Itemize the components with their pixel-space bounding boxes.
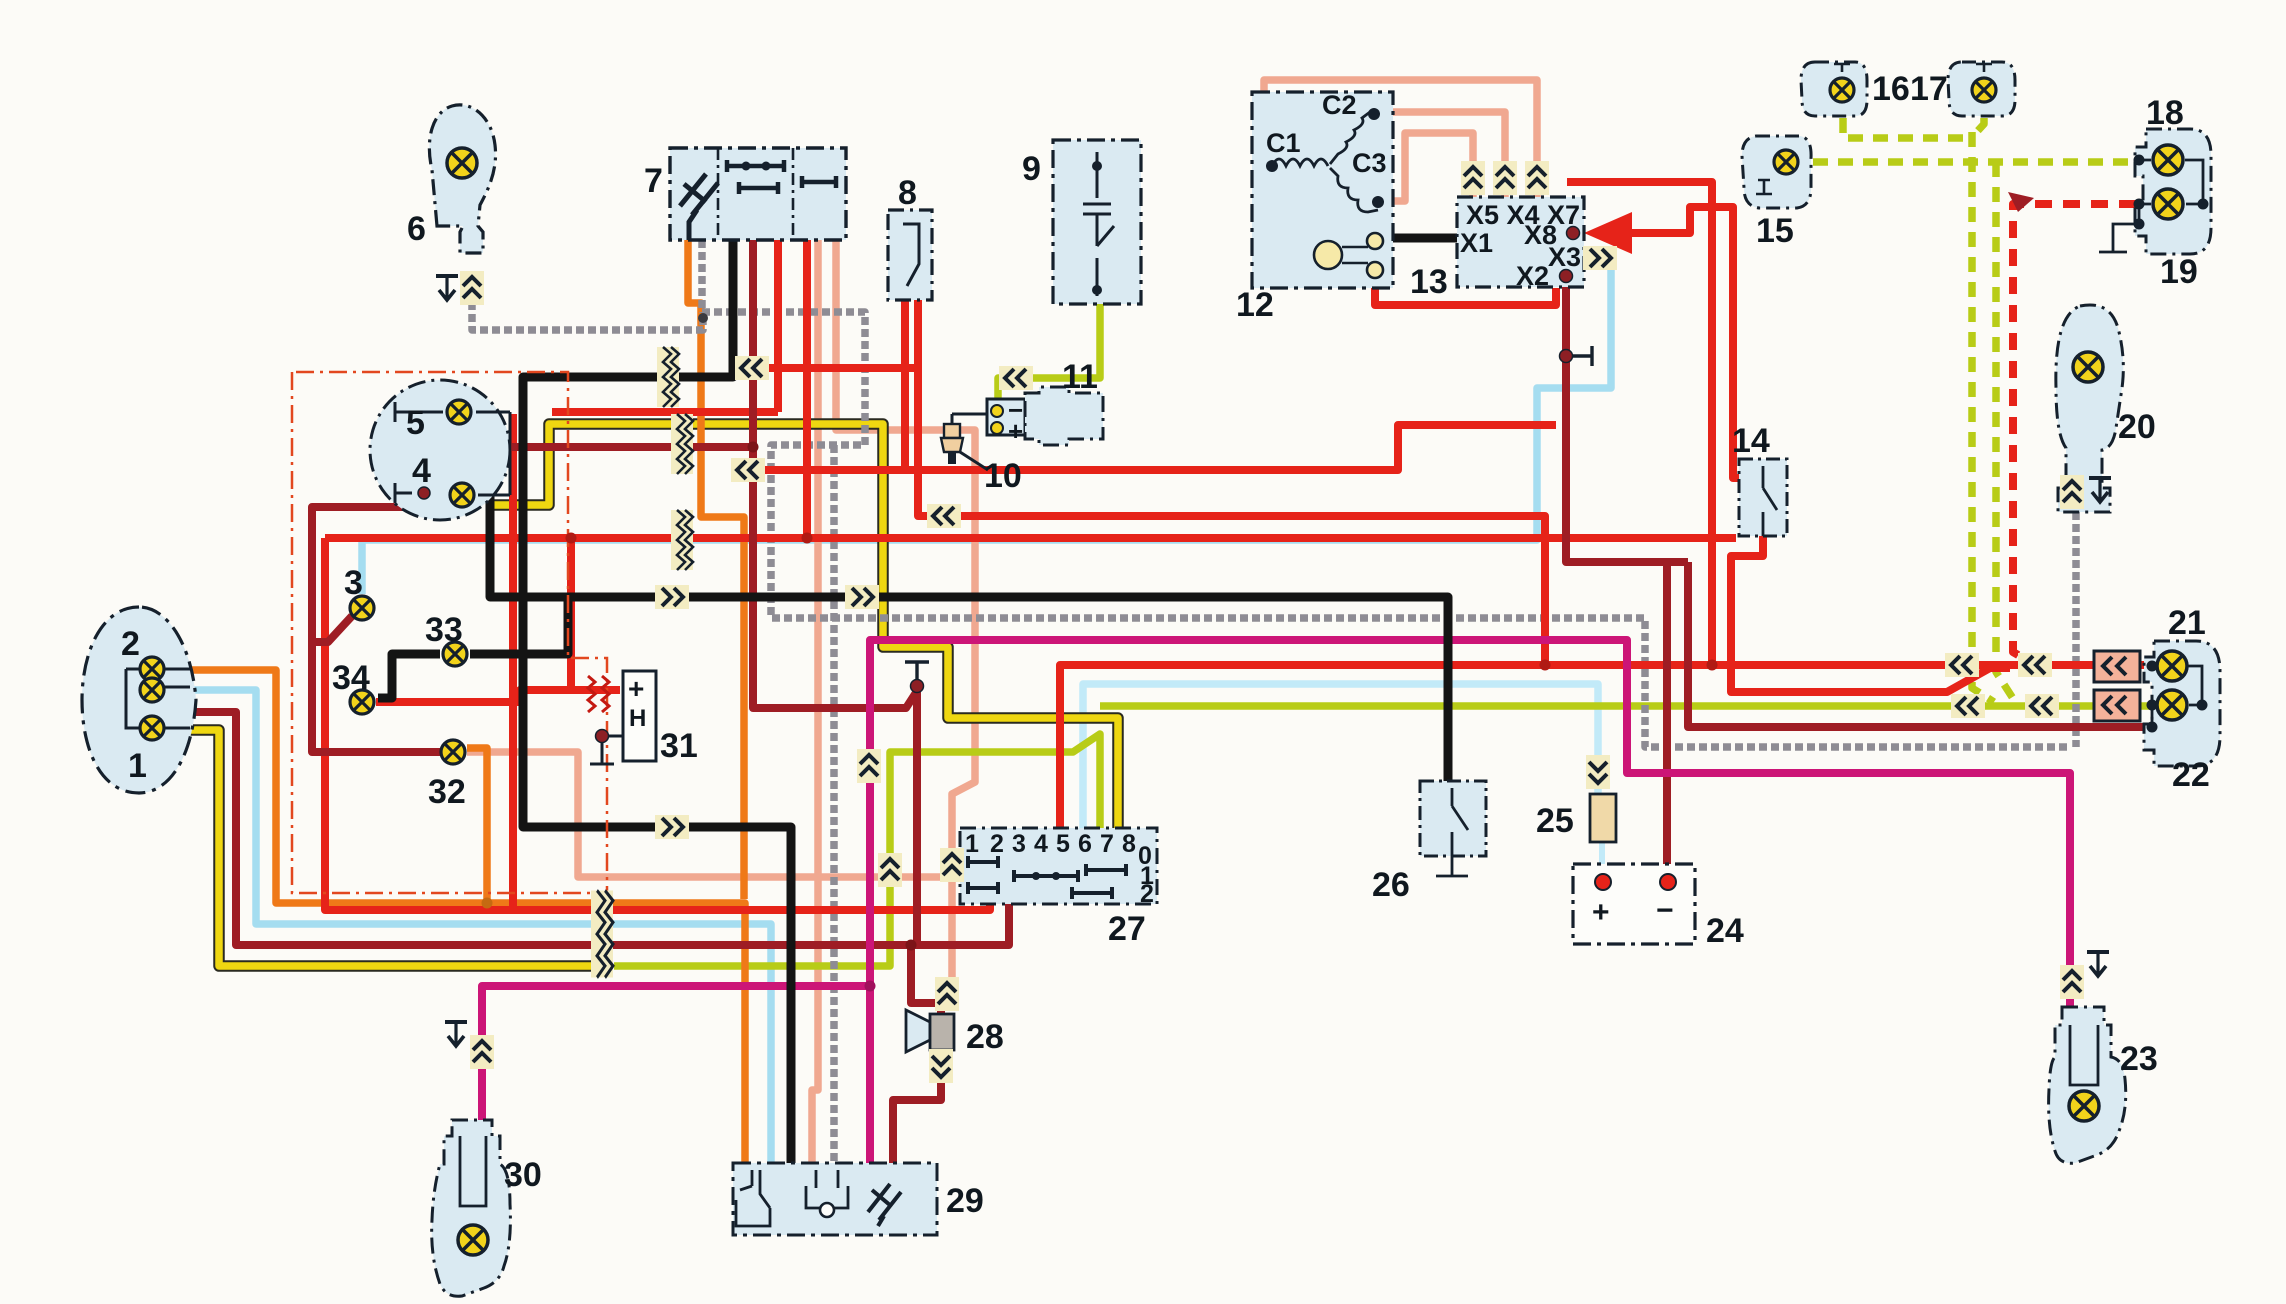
harness boundary thin red dash-dot frame (left cluster) xyxy=(292,372,607,893)
wire red branch up to block7 xyxy=(803,240,811,538)
wire chartreuse dashed lamp17 stem xyxy=(1973,118,1984,136)
svg-text:33: 33 xyxy=(425,611,463,649)
wire red generator to regulator xyxy=(1375,268,1556,305)
svg-text:5: 5 xyxy=(406,404,425,442)
wire fuse to battery plus xyxy=(1599,842,1605,864)
wire maroon to lamp22 housing xyxy=(1688,562,2148,727)
lamp 20 (rear left turn signal) xyxy=(2056,305,2123,512)
wire red riser speedo area down xyxy=(509,414,517,908)
wire chartreuse dashed turn signal 16 xyxy=(1843,118,1972,138)
wire gray lamp6 down xyxy=(472,302,703,330)
wire red lamp34 to relay31 xyxy=(376,690,575,702)
wire black generator X1 xyxy=(1390,234,1457,243)
connector block 27 xyxy=(960,828,1157,904)
svg-text:6: 6 xyxy=(1078,830,1092,858)
svg-text:24: 24 xyxy=(1706,912,1744,950)
connector chevrons below lamp 6 xyxy=(460,271,484,305)
bullet connector blocks at lamp 21 xyxy=(2094,651,2140,682)
headlamp bulb bracket xyxy=(126,669,190,728)
wire pale blue block27 to fuse 25 xyxy=(1083,684,1598,828)
wire maroon X2 to battery minus xyxy=(1566,278,1688,562)
wire gray lamp20 down xyxy=(2072,512,2080,747)
ignition coil 11 xyxy=(987,399,1025,435)
contact dot of 31 with holder xyxy=(590,736,623,764)
wire maroon horn to block29 xyxy=(893,1050,941,1163)
wire salmon block7 to horn xyxy=(836,240,975,988)
svg-text:17: 17 xyxy=(1910,70,1948,108)
junction dots xyxy=(698,313,708,323)
wire maroon battery drop xyxy=(1663,562,1671,864)
wire yellow outline headlight low beam xyxy=(190,730,596,966)
indicator lamp 3 (high beam) xyxy=(350,596,374,620)
winding C2 xyxy=(1330,112,1370,164)
wire maroon bulb4 to lamp32 xyxy=(312,496,440,752)
svg-text:26: 26 xyxy=(1372,866,1410,904)
ignition cut-out switch 9 xyxy=(1053,140,1141,304)
svg-text:C2: C2 xyxy=(1322,90,1357,120)
wire red main feed y538 xyxy=(325,534,1736,542)
spark plug 10 xyxy=(952,414,987,424)
svg-text:X2: X2 xyxy=(1516,261,1549,291)
wire red brake switch8 left xyxy=(762,300,905,470)
connector chevrons on wires xyxy=(731,458,765,482)
high/low beam lamp 2 (double bulb) xyxy=(140,657,164,681)
horn 28 xyxy=(906,1010,930,1052)
wire chartreuse continuation to block27 and tail xyxy=(614,734,1100,966)
battery 24 xyxy=(1573,864,1695,944)
stop switch 14 xyxy=(1739,459,1787,536)
wire black speedo to switch26 xyxy=(474,396,1448,781)
contact dot lamp 4 xyxy=(418,487,430,499)
fuse 25 xyxy=(1590,794,1616,842)
wire yellow outline speedo to block27 xyxy=(492,424,1118,828)
wire chartreuse tail lamp 22 xyxy=(1100,702,2155,710)
lamp 17 xyxy=(1948,62,2015,116)
X2 contact dot xyxy=(1560,270,1573,283)
wire salmon lamp32 branch xyxy=(467,752,952,877)
wire orange block7 branch xyxy=(688,240,744,899)
wire salmon generator phase 1 xyxy=(1264,80,1537,197)
wire chartreuse dashed turn vertical a xyxy=(1972,132,1994,702)
lamp 6 bulb xyxy=(447,148,477,178)
wire maroon headlight to block27 bottom xyxy=(190,712,1009,945)
svg-text:C1: C1 xyxy=(1266,128,1301,158)
svg-text:+: + xyxy=(628,673,644,704)
svg-text:−: − xyxy=(1656,894,1674,927)
wire skyblue headlight to block 29 xyxy=(190,690,771,1163)
wire red dashed brake rear xyxy=(2013,204,2136,665)
lamp 16 xyxy=(1801,62,1867,116)
svg-text:13: 13 xyxy=(1410,263,1448,301)
wire gray branch to block29 xyxy=(830,445,838,1163)
svg-text:22: 22 xyxy=(2172,756,2210,794)
arrow mark on red dashed corner xyxy=(2008,192,2034,212)
svg-text:4: 4 xyxy=(412,452,431,490)
harness crossing bands xyxy=(657,347,679,407)
svg-text:29: 29 xyxy=(946,1182,984,1220)
svg-text:3: 3 xyxy=(344,564,363,602)
svg-text:28: 28 xyxy=(966,1018,1004,1056)
brake light switch 8 xyxy=(888,210,932,300)
cell2 glyph: contact bars xyxy=(727,160,784,194)
cell1 glyph: lamp switch symbol xyxy=(680,174,718,240)
indicator lamp 32 xyxy=(441,740,465,764)
wire salmon generator phase 2 xyxy=(1377,112,1505,197)
svg-text:H: H xyxy=(629,705,646,732)
wire orange headlight parking circuit xyxy=(190,670,745,1163)
wire gray block7 to rear xyxy=(702,240,2070,747)
svg-text:C3: C3 xyxy=(1352,148,1387,178)
wire black lamp33 to lamp34 xyxy=(378,654,440,698)
wire red jumper to coil area xyxy=(748,364,916,372)
svg-text:21: 21 xyxy=(2168,604,2206,642)
wire red X8 to switch14 xyxy=(1596,207,1739,478)
headlamp housing 1/2 (big oval left) xyxy=(82,607,196,793)
svg-text:25: 25 xyxy=(1536,802,1574,840)
svg-text:6: 6 xyxy=(407,210,426,248)
winding C1 xyxy=(1272,159,1328,166)
tail lamp unit 18/19 xyxy=(2135,129,2211,254)
wire red brake switch8 right xyxy=(918,300,1545,661)
lamp 6 housing (front turn signal left) xyxy=(429,105,495,253)
wire maroon speedo right to contact xyxy=(753,240,917,708)
svg-text:20: 20 xyxy=(2118,408,2156,446)
svg-text:2: 2 xyxy=(121,625,140,663)
svg-text:8: 8 xyxy=(1122,830,1136,858)
svg-text:1: 1 xyxy=(128,747,147,785)
parking lamp 1 xyxy=(140,716,164,740)
svg-text:19: 19 xyxy=(2160,253,2198,291)
svg-text:34: 34 xyxy=(332,659,370,697)
wire red branch to relay31 xyxy=(571,538,620,690)
wire magenta lamp30 xyxy=(482,986,870,1040)
svg-text:2: 2 xyxy=(1140,880,1154,908)
X8 contact dot xyxy=(1567,227,1580,240)
svg-text:30: 30 xyxy=(504,1156,542,1194)
svg-text:7: 7 xyxy=(644,162,663,200)
svg-text:+: + xyxy=(1592,896,1610,929)
wire magenta lamp23 stem xyxy=(2066,994,2074,1012)
wire yellow speedo to block27 xyxy=(492,424,1118,828)
contact clamp near horn riser xyxy=(905,662,929,684)
wire maroon contact down xyxy=(913,686,921,945)
arrowhead at X8 xyxy=(1584,212,1632,254)
switch 26 (neutral?) xyxy=(1420,781,1486,856)
svg-text:23: 23 xyxy=(2120,1040,2158,1078)
svg-text:12: 12 xyxy=(1236,286,1274,324)
indicator lamp 34 xyxy=(350,690,374,714)
svg-text:18: 18 xyxy=(2146,94,2184,132)
wire black lamp33 right xyxy=(470,601,568,654)
wire chartreuse dashed lamp15 to lamp18 xyxy=(1813,158,2139,166)
switch block 7 (ignition/light switch) xyxy=(670,148,846,240)
handlebar switch block 29 xyxy=(733,1163,937,1235)
wire chartreuse dashed turn vertical b xyxy=(1996,162,2014,700)
svg-text:9: 9 xyxy=(1022,150,1041,188)
svg-text:1: 1 xyxy=(965,830,979,858)
wire salmon block7 to block29 xyxy=(812,240,818,1163)
rear lamp 21/22 xyxy=(2144,641,2220,766)
svg-text:X1: X1 xyxy=(1460,228,1493,258)
svg-text:15: 15 xyxy=(1756,212,1794,250)
lamp 30 (rear?) xyxy=(432,1120,511,1296)
wire red rectifier top loop xyxy=(1567,182,1712,665)
wire yellow headlight low beam xyxy=(190,730,596,966)
svg-text:+: + xyxy=(1008,416,1023,446)
svg-text:4: 4 xyxy=(1034,830,1048,858)
wire chartreuse switch9 to coil xyxy=(998,304,1100,428)
svg-text:2: 2 xyxy=(990,830,1004,858)
lamp 4 xyxy=(450,483,474,507)
svg-text:32: 32 xyxy=(428,773,466,811)
winding C3 xyxy=(1330,168,1378,212)
wire red high beam bulb5 to block7 and loop xyxy=(552,408,778,416)
svg-text:11: 11 xyxy=(1062,358,1098,396)
rectifier-regulator 13 xyxy=(1457,197,1584,287)
generator 12 xyxy=(1252,92,1393,288)
wire red switch14 out to lamp21 xyxy=(1731,536,2010,692)
lamp 5 xyxy=(447,400,471,424)
svg-text:10: 10 xyxy=(984,457,1022,495)
wire skyblue lamp3 to rectifier X3 xyxy=(362,258,1611,594)
speedometer housing with lamps 4/5 xyxy=(370,380,510,520)
svg-text:27: 27 xyxy=(1108,910,1146,948)
wire maroon lamp3 join xyxy=(316,616,352,642)
wire red block27 to lamp21 xyxy=(1060,665,2148,828)
wire black block7 to block29 xyxy=(523,240,791,1163)
svg-text:31: 31 xyxy=(660,727,698,765)
lamp 15 (rear right turn signal?) xyxy=(1742,136,1811,208)
indicator lamp 33 xyxy=(443,642,467,666)
cell3 glyph: single bar xyxy=(802,176,836,188)
wire orange lamp32 branch xyxy=(467,748,487,903)
svg-text:14: 14 xyxy=(1732,422,1770,460)
wire red riser to bottom run xyxy=(325,538,990,910)
lamp 23 (rear stop?) xyxy=(2049,1007,2126,1163)
relay unit 31 (+H) xyxy=(623,671,656,761)
wire salmon generator phase 3 xyxy=(1384,133,1473,201)
svg-text:16: 16 xyxy=(1872,70,1910,108)
ground below lamp 6 xyxy=(436,276,458,300)
rotor contact symbol xyxy=(1314,241,1342,269)
wire maroon horn feed xyxy=(911,945,941,1014)
svg-text:8: 8 xyxy=(898,174,917,212)
svg-text:5: 5 xyxy=(1056,830,1070,858)
svg-text:7: 7 xyxy=(1100,830,1114,858)
contact clamp on X2 wire xyxy=(1566,346,1592,366)
bullet connector blocks at lamp 22 xyxy=(2094,690,2140,721)
svg-text:3: 3 xyxy=(1012,830,1026,858)
wire red block7 pin down xyxy=(774,240,782,412)
svg-text:X3: X3 xyxy=(1548,242,1581,272)
wire magenta lamp30 stem xyxy=(478,1064,486,1124)
wire magenta block7 to lamp23 xyxy=(870,640,2070,1163)
